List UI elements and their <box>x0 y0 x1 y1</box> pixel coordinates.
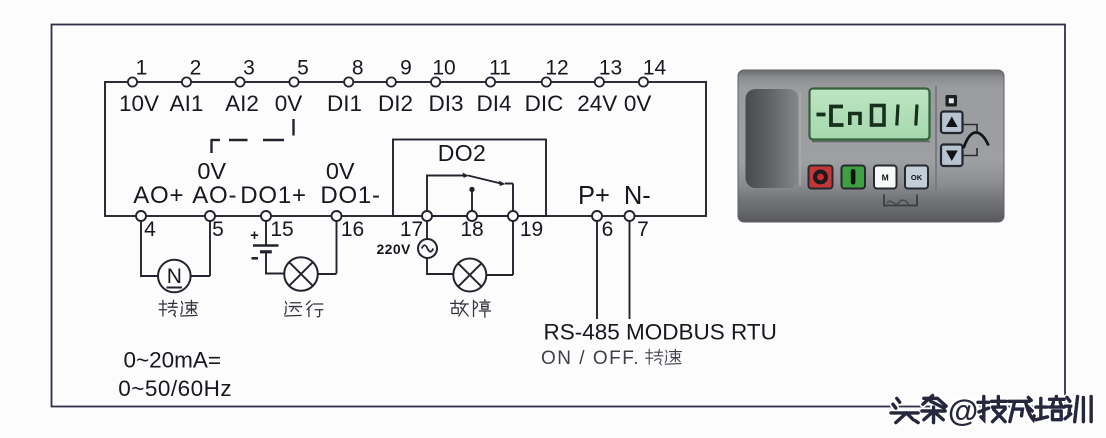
svg-text:3: 3 <box>243 57 255 80</box>
svg-text:ON / OFF.: ON / OFF. <box>541 348 640 369</box>
svg-text:17: 17 <box>400 218 423 241</box>
svg-text:M: M <box>882 173 889 183</box>
svg-text:AI2: AI2 <box>225 91 259 116</box>
svg-text:6: 6 <box>602 218 614 241</box>
svg-text:24V: 24V <box>577 91 617 116</box>
svg-text:19: 19 <box>520 218 543 241</box>
svg-text:N: N <box>167 265 182 288</box>
svg-text:13: 13 <box>599 57 622 80</box>
svg-text:DO2: DO2 <box>438 140 487 166</box>
svg-text:10: 10 <box>432 57 455 80</box>
svg-text:5: 5 <box>297 57 309 80</box>
svg-text:9: 9 <box>400 57 412 80</box>
svg-text:DO1+: DO1+ <box>240 182 307 209</box>
svg-text:0V: 0V <box>275 91 303 116</box>
svg-text:DIC: DIC <box>525 91 564 116</box>
svg-text:7: 7 <box>637 218 649 241</box>
svg-text:10V: 10V <box>119 91 159 116</box>
svg-text:AO+: AO+ <box>133 182 184 209</box>
svg-text:2: 2 <box>190 57 202 80</box>
svg-text:15: 15 <box>270 218 293 241</box>
svg-text:AI1: AI1 <box>170 91 204 116</box>
svg-text:8: 8 <box>352 57 364 80</box>
svg-text:16: 16 <box>341 218 364 241</box>
svg-text:OK: OK <box>911 173 923 182</box>
svg-text:0V: 0V <box>326 158 355 184</box>
svg-text:18: 18 <box>460 218 483 241</box>
svg-text:0~20mA=: 0~20mA= <box>124 348 222 373</box>
svg-text:DO1-: DO1- <box>320 182 381 209</box>
svg-text:P+: P+ <box>578 182 610 210</box>
svg-text:@: @ <box>948 393 978 428</box>
svg-text:4: 4 <box>144 218 156 241</box>
svg-text:220V: 220V <box>377 241 412 257</box>
svg-text:1: 1 <box>136 57 148 80</box>
svg-text:DI3: DI3 <box>428 91 463 116</box>
svg-text:+: + <box>250 228 258 244</box>
svg-text:11: 11 <box>489 57 511 80</box>
svg-text:RS-485 MODBUS RTU: RS-485 MODBUS RTU <box>544 320 777 345</box>
svg-text:N-: N- <box>624 182 651 210</box>
svg-text:DI1: DI1 <box>327 91 362 116</box>
svg-text:DI2: DI2 <box>378 91 413 116</box>
svg-text:DI4: DI4 <box>476 91 511 116</box>
svg-text:14: 14 <box>643 57 667 80</box>
svg-text:AO-: AO- <box>192 182 237 209</box>
svg-text:12: 12 <box>545 57 568 80</box>
svg-text:0V: 0V <box>197 158 226 184</box>
svg-text:0V: 0V <box>624 91 652 116</box>
svg-text:5: 5 <box>212 218 224 241</box>
svg-text:0~50/60Hz: 0~50/60Hz <box>118 376 232 401</box>
